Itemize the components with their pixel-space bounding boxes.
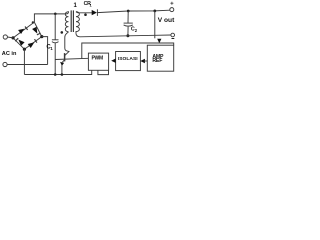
arrow ISOLASI to PWM xyxy=(111,59,116,63)
capacitor C2 lead upper xyxy=(127,11,129,23)
arrowhead into AMP REF xyxy=(157,39,161,44)
transformer T1 core xyxy=(71,10,73,32)
box PWM xyxy=(88,53,108,70)
wire feedback over boxes xyxy=(82,43,174,58)
svg-text:PWM: PWM xyxy=(92,56,103,62)
wire AC2 horizontal xyxy=(7,64,48,66)
transistor Q1 emitter arrowhead xyxy=(60,62,64,66)
wire bridge bottom to ground rail xyxy=(23,49,25,74)
wire top rail xyxy=(34,14,66,22)
capacitor C1 lead upper xyxy=(54,14,56,40)
wire emitter to rail xyxy=(61,65,63,74)
wire output rail xyxy=(97,10,169,12)
wire bridge side top-left xyxy=(13,22,34,38)
wire collector to primary xyxy=(65,32,70,52)
node C2 bottom junction xyxy=(126,34,129,37)
label minus xyxy=(172,38,175,40)
box AMP REF xyxy=(147,45,173,71)
svg-text:1: 1 xyxy=(74,3,78,9)
arrow AMP REF to ISOLASI xyxy=(140,59,147,63)
svg-text:ISOLASI: ISOLASI xyxy=(118,56,139,62)
node bridge bottom corner xyxy=(23,48,26,51)
diode bridge lower-right xyxy=(28,42,35,48)
wire bridge side bottom-right xyxy=(24,37,41,50)
diode bridge upper-left xyxy=(18,29,24,34)
terminal AC line 1 xyxy=(3,35,7,39)
svg-text:1: 1 xyxy=(50,46,53,51)
transformer secondary phase dot xyxy=(84,13,87,16)
terminal AC line 2 xyxy=(3,62,7,66)
svg-text:AC in: AC in xyxy=(2,51,17,57)
diode CR1 xyxy=(92,9,98,16)
transistor Q1 collector xyxy=(65,51,70,56)
wire base drive xyxy=(55,58,88,59)
terminal minus xyxy=(171,33,175,37)
wire V out sense vertical xyxy=(154,11,156,38)
node V out junction xyxy=(153,10,156,13)
node bridge top corner xyxy=(32,21,34,23)
label AMP REF xyxy=(152,54,164,64)
node top-rail junction xyxy=(54,13,57,16)
transistor Q1 bar xyxy=(64,53,66,61)
capacitor C1 plates xyxy=(52,40,59,43)
capacitor C2 lead lower xyxy=(127,27,129,36)
transformer primary phase dot xyxy=(61,31,64,34)
diode bridge upper-right xyxy=(32,27,37,34)
node bridge right corner xyxy=(40,35,43,38)
svg-text:REF: REF xyxy=(152,58,162,64)
label plus xyxy=(170,2,173,5)
svg-text:2: 2 xyxy=(135,28,138,33)
node C1 bottom rail junction xyxy=(54,73,57,76)
capacitor C2 plates xyxy=(124,23,133,26)
svg-text:V out: V out xyxy=(158,17,175,24)
wire bottom rail xyxy=(24,70,91,74)
node emitter rail junction xyxy=(61,73,64,76)
capacitor C1 lead lower xyxy=(54,43,56,75)
svg-text:1: 1 xyxy=(90,2,93,7)
node bridge left corner xyxy=(12,36,15,39)
wire secondary top to CR1 xyxy=(76,12,92,13)
diode bridge lower-left xyxy=(18,40,24,46)
wire loop under PWM xyxy=(98,70,109,74)
box ISOLASI xyxy=(116,52,141,71)
transformer T1 secondary winding xyxy=(76,12,79,34)
terminal V out plus xyxy=(170,8,174,12)
wire secondary return rail xyxy=(76,34,171,37)
wire bridge side top-right xyxy=(34,22,42,36)
wire bridge right corner to AC2 xyxy=(42,37,48,65)
node C2 top junction xyxy=(127,10,130,13)
wire AC1 to bridge xyxy=(7,36,13,39)
transformer T1 primary winding xyxy=(65,12,68,32)
wire bridge side bottom-left xyxy=(13,38,24,49)
transistor Q1 emitter xyxy=(62,60,64,63)
